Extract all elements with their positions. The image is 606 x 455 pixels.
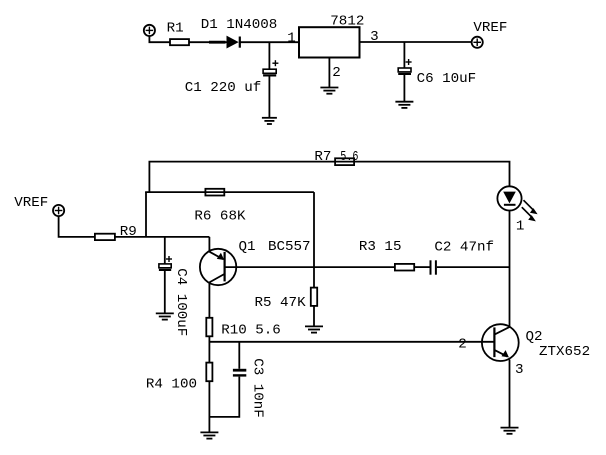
wire C1 to ground	[268, 77, 270, 118]
LED D2	[497, 186, 521, 210]
svg-text:5.6: 5.6	[340, 149, 358, 165]
ground 7812	[320, 88, 338, 94]
svg-text:2: 2	[458, 337, 467, 353]
wire junction to C3	[238, 342, 240, 369]
wire R10 junction to Q2 base	[209, 341, 494, 343]
svg-text:C4 100uF: C4 100uF	[173, 268, 189, 336]
capacitor C6	[398, 59, 411, 74]
ground R4	[200, 432, 218, 438]
diode D1	[227, 37, 240, 48]
VREF terminal bottom	[53, 205, 64, 216]
wire R1 to D1	[189, 41, 227, 43]
wire R5 to ground	[313, 306, 315, 326]
ground C4	[156, 313, 174, 319]
wire junction to C6	[403, 42, 405, 68]
wire 7812 pin2 to ground	[328, 58, 330, 88]
svg-text:D1 1N4008: D1 1N4008	[201, 17, 278, 33]
transistor Q2	[482, 324, 519, 361]
wire C3 to R4 leg	[209, 377, 239, 417]
capacitor C4	[159, 256, 172, 270]
VREF terminal top	[472, 37, 483, 48]
resistor R7	[335, 158, 354, 165]
svg-text:1: 1	[516, 219, 525, 235]
ground C1	[262, 118, 277, 124]
wire R10 to junction	[208, 336, 210, 362]
svg-text:C2 47nf: C2 47nf	[434, 239, 494, 255]
resistor R5	[311, 288, 317, 306]
resistor R3	[395, 264, 414, 271]
wire C6 to ground	[403, 75, 405, 101]
svg-text:7812: 7812	[330, 14, 364, 30]
svg-text:Q2: Q2	[526, 329, 543, 345]
svg-text:BC557: BC557	[268, 239, 311, 255]
resistor R9	[95, 234, 115, 240]
resistor R4	[206, 363, 212, 382]
svg-text:R4 100: R4 100	[146, 376, 197, 392]
svg-text:1: 1	[287, 31, 296, 47]
wire R9 to Q1 emitter	[115, 236, 209, 238]
wire D1 to 7812 pin1	[240, 41, 299, 43]
wire junction up to R6 line	[145, 192, 147, 237]
transistor Q1	[200, 249, 236, 285]
capacitor C3	[233, 370, 246, 375]
svg-text:ZTX652: ZTX652	[539, 344, 590, 360]
svg-text:R6 68K: R6 68K	[194, 209, 246, 225]
svg-text:Q1: Q1	[239, 239, 256, 255]
input terminal	[144, 25, 155, 36]
wire VREF to R9	[59, 216, 95, 237]
wire C2 to rail	[437, 266, 510, 268]
wire C4 to ground	[164, 271, 166, 313]
ground R5	[305, 326, 323, 332]
svg-text:R3 15: R3 15	[359, 239, 402, 255]
svg-text:VREF: VREF	[473, 20, 507, 36]
wire R6 junction down to R5	[313, 192, 315, 288]
wire Q1 collector to R10	[208, 282, 210, 317]
resistor R10	[206, 318, 212, 337]
wire LED to Q2 collector	[509, 211, 511, 328]
capacitor C2	[431, 260, 436, 274]
wire R7 line	[149, 162, 510, 187]
resistor R6	[205, 189, 224, 196]
wire down to Q1	[208, 237, 210, 252]
svg-text:C3 10nF: C3 10nF	[250, 358, 266, 418]
regulator U1 7812	[299, 27, 360, 57]
svg-text:R1: R1	[167, 21, 184, 37]
ground C6	[395, 102, 413, 108]
wire R4 to ground	[208, 381, 210, 432]
wire input to R1	[149, 36, 170, 42]
wire junction to C1	[268, 42, 270, 69]
svg-text:R10 5.6: R10 5.6	[221, 323, 281, 339]
svg-text:C6 10uF: C6 10uF	[417, 71, 477, 87]
wire junction to C4	[164, 237, 166, 264]
resistor R1	[170, 39, 189, 45]
wire up to R7 line	[148, 162, 150, 193]
wire R3 to C2	[414, 266, 429, 268]
svg-text:C1 220 uf: C1 220 uf	[185, 80, 262, 96]
svg-text:R5 47K: R5 47K	[255, 295, 307, 311]
LED light arrows	[522, 200, 538, 221]
svg-text:3: 3	[370, 29, 379, 45]
wire R6 line	[145, 191, 314, 193]
svg-text:R7: R7	[314, 149, 331, 165]
svg-text:2: 2	[332, 65, 341, 81]
wire Q1 base to junction	[225, 266, 314, 268]
ground Q2	[501, 428, 519, 434]
wire 7812 pin3 to VREF	[360, 41, 472, 43]
wire Q2 emitter down	[509, 360, 511, 428]
capacitor C1	[263, 60, 278, 75]
svg-text:VREF: VREF	[14, 195, 48, 211]
wire junction to R3	[314, 266, 395, 268]
svg-text:3: 3	[515, 362, 524, 378]
